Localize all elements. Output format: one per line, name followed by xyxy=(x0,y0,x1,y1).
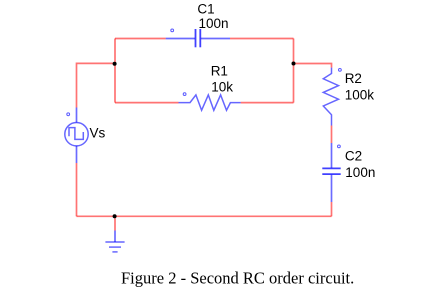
ground node junction dot xyxy=(113,214,117,218)
svg-text:R2: R2 xyxy=(345,71,362,86)
pin marker: C1 pin xyxy=(171,29,174,32)
svg-text:C1: C1 xyxy=(197,1,214,16)
pin marker: R1 pin xyxy=(183,93,186,96)
ground xyxy=(105,231,124,252)
wire: left inner vertical (node A riser) xyxy=(114,39,116,103)
svg-text:100k: 100k xyxy=(345,87,375,102)
pin marker: C2 pin xyxy=(338,145,341,148)
wire: R2 bottom to C2 top (red mid segment) xyxy=(331,126,333,144)
node B junction dot xyxy=(292,62,296,66)
svg-text:R1: R1 xyxy=(211,64,228,79)
svg-text:Vs: Vs xyxy=(90,126,106,141)
capacitor C1 xyxy=(166,29,230,47)
resistor R2 xyxy=(323,68,338,126)
wire: Vs plus lead up and across to node A xyxy=(77,63,116,107)
wire: Vs minus lead down to ground rail xyxy=(76,163,78,216)
pin marker: R2 pin xyxy=(339,69,342,72)
svg-text:100n: 100n xyxy=(345,165,375,180)
voltage source Vs xyxy=(65,108,88,164)
resistor R1 xyxy=(179,95,241,110)
wire: top rail left of C1 xyxy=(115,38,166,40)
wire: R1 rail left of R1 xyxy=(115,102,179,104)
wire: node B across to R2 top xyxy=(294,64,332,68)
wire: right inner vertical (node B riser) xyxy=(293,39,295,103)
svg-text:Figure 2 - Second RC order cir: Figure 2 - Second RC order circuit. xyxy=(121,268,354,287)
wire: bottom ground rail xyxy=(77,215,332,217)
wire: ground stub (red part) xyxy=(114,216,116,230)
pin marker: Vs pin xyxy=(67,113,70,116)
wire: top rail right of C1 xyxy=(230,38,294,40)
wire: C2 bottom lead to ground rail xyxy=(331,202,333,216)
svg-text:C2: C2 xyxy=(345,148,362,163)
wire: R1 rail right of R1 xyxy=(241,102,294,104)
svg-text:10k: 10k xyxy=(211,79,233,94)
svg-text:100n: 100n xyxy=(199,16,229,31)
node A junction dot xyxy=(113,62,117,66)
capacitor C2 xyxy=(322,143,340,202)
